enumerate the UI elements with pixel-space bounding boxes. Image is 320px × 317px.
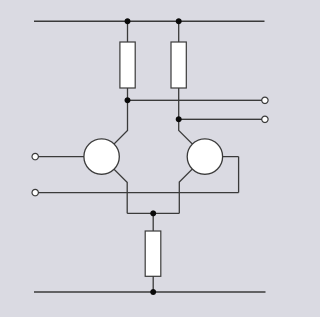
wire: T1 collector drop and bend: [114, 100, 127, 144]
wire: R1 top lead: [127, 21, 129, 42]
wire: T2 right side to vertical link: [223, 156, 239, 158]
wire: output 2 from node B to right terminal: [179, 118, 262, 120]
wire: positive supply rail (top): [34, 20, 265, 22]
junction dot: node B (R2 bottom / output 2): [176, 116, 182, 122]
wire: output 1 from node A to right terminal: [128, 99, 262, 101]
wire: negative supply rail (bottom): [34, 291, 266, 293]
wire: right vertical link down: [238, 157, 240, 193]
junction dot: top rail / R2: [176, 18, 182, 24]
wire: tail down to RE: [152, 213, 154, 231]
wire: emitter bus: [127, 212, 179, 214]
terminal: input 2 (left lower): [32, 189, 38, 195]
wire: T2 emitter bend and drop: [179, 169, 192, 214]
wire: input 1 to T1 left side: [38, 156, 84, 158]
wire: T2 collector drop and bend: [179, 119, 193, 144]
junction dot: node A (R1 bottom / output 1): [125, 97, 131, 103]
junction dot: RE / bottom rail: [150, 289, 156, 295]
wire: input 2 long run to right link (crosses emitter drops): [38, 192, 238, 194]
wire: R2 top lead: [178, 21, 180, 42]
transistor T2 (right, circle symbol): [187, 139, 222, 174]
terminal: input 1 (left upper): [32, 153, 38, 159]
resistor R2 (right collector resistor): [171, 42, 186, 88]
wire: T1 emitter bend and drop: [114, 169, 127, 213]
transistor T1 (left, circle symbol): [84, 139, 119, 174]
wire: R2 bottom lead to node B (crosses output 1 wire): [178, 88, 180, 119]
wire: RE bottom lead to bottom rail: [152, 276, 154, 292]
junction dot: top rail / R1: [125, 18, 131, 24]
junction dot: emitter bus / tail: [150, 210, 156, 216]
resistor RE (tail resistor): [145, 231, 161, 276]
wire: R1 bottom lead to node A: [127, 88, 129, 100]
terminal: output 1 (right upper): [262, 97, 268, 103]
terminal: output 2 (right lower): [262, 116, 268, 122]
resistor R1 (left collector resistor): [120, 42, 135, 88]
